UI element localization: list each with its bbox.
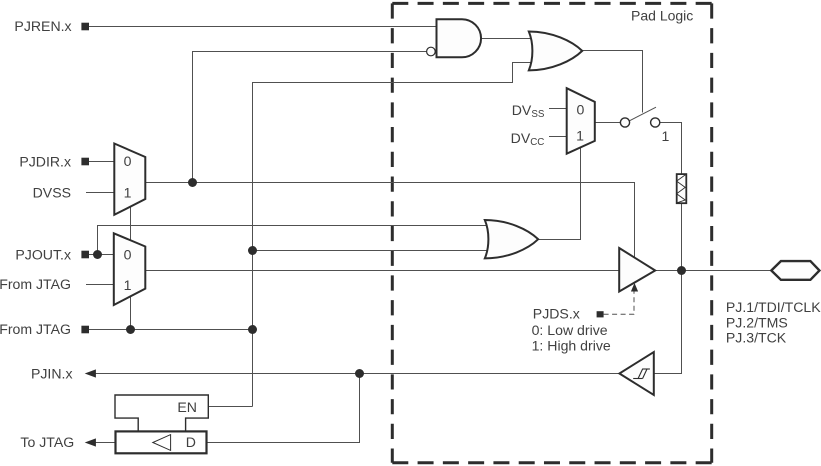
svg-text:From JTAG: From JTAG [0,276,71,292]
svg-text:PJDIR.x: PJDIR.x [19,153,71,169]
svg-text:0: Low drive: 0: Low drive [532,322,608,338]
svg-text:PJ.2/TMS: PJ.2/TMS [726,314,788,330]
svg-text:DVSS: DVSS [33,184,71,200]
svg-text:PJ.3/TCK: PJ.3/TCK [726,330,787,346]
svg-text:1: 1 [576,128,584,144]
svg-text:From JTAG: From JTAG [0,321,71,337]
svg-text:PJ.1/TDI/TCLK: PJ.1/TDI/TCLK [726,299,821,315]
svg-text:To JTAG: To JTAG [20,434,74,450]
svg-text:0: 0 [124,153,132,169]
svg-text:D: D [186,434,196,450]
svg-text:0: 0 [576,101,584,117]
svg-text:0: 0 [124,247,132,263]
svg-text:EN: EN [177,399,197,415]
svg-text:1: 1 [124,277,132,293]
svg-text:1: High drive: 1: High drive [532,337,611,353]
svg-text:PJREN.x: PJREN.x [14,18,71,34]
svg-text:PJIN.x: PJIN.x [31,365,73,381]
svg-text:1: 1 [124,185,132,201]
svg-text:Pad Logic: Pad Logic [631,8,693,24]
svg-text:PJOUT.x: PJOUT.x [15,246,71,262]
svg-text:1: 1 [661,128,669,144]
svg-text:PJDS.x: PJDS.x [533,306,580,322]
